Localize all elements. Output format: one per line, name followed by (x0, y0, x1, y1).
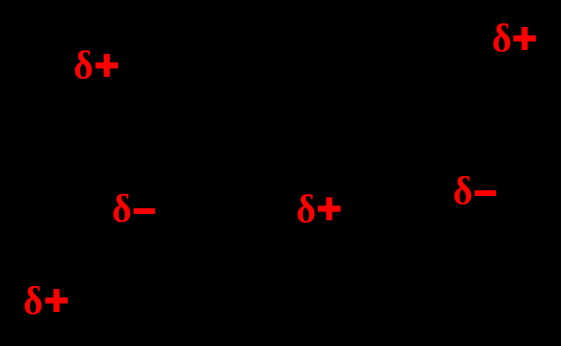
partial charge label delta-plus on hydrogen-bond donor H (center) (298, 194, 341, 223)
partial charge label delta-minus on O of right water molecule (454, 176, 496, 205)
partial charge label delta-minus on O of left water molecule (113, 194, 155, 223)
partial charge label delta-plus on upper H of right water molecule (493, 23, 536, 52)
partial charge label delta-plus on lower-left H of left water molecule (25, 286, 68, 315)
partial charge label delta-plus on upper-left H of left water molecule (75, 50, 118, 79)
